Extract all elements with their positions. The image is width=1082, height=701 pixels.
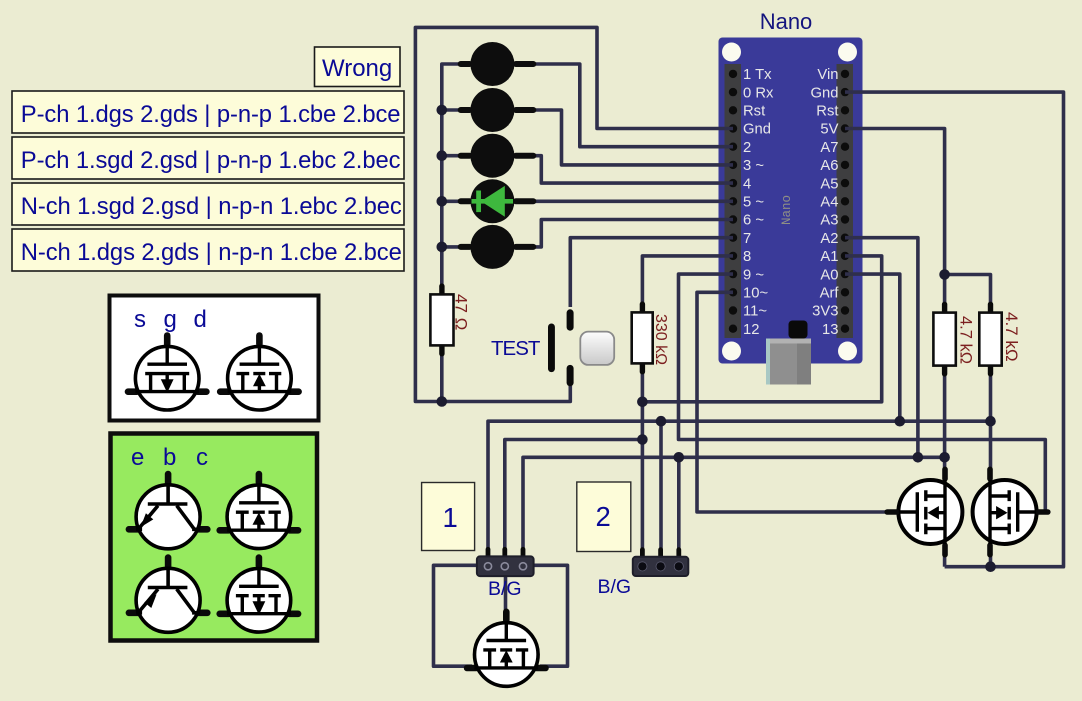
svg-text:2: 2 [596, 501, 611, 532]
svg-text:B/G: B/G [598, 576, 632, 598]
svg-text:A1: A1 [820, 249, 838, 265]
svg-text:c: c [196, 444, 208, 471]
svg-text:8: 8 [743, 249, 751, 265]
svg-text:6 ~: 6 ~ [743, 213, 764, 229]
svg-text:4.7 kΩ: 4.7 kΩ [957, 316, 975, 364]
svg-text:TEST: TEST [491, 337, 541, 360]
svg-text:A6: A6 [820, 158, 838, 174]
svg-text:11~: 11~ [743, 304, 767, 320]
svg-text:A7: A7 [820, 140, 838, 156]
svg-text:Gnd: Gnd [743, 122, 771, 138]
svg-text:10~: 10~ [743, 286, 768, 302]
svg-text:Rst: Rst [743, 104, 765, 120]
svg-text:1: 1 [443, 502, 458, 533]
svg-text:7: 7 [743, 231, 751, 247]
svg-text:47 Ω: 47 Ω [452, 294, 471, 330]
svg-text:4: 4 [743, 176, 751, 192]
svg-text:B/G: B/G [488, 578, 522, 600]
svg-text:g: g [164, 306, 177, 333]
svg-text:1 Tx: 1 Tx [743, 67, 772, 83]
svg-text:b: b [163, 444, 176, 471]
svg-text:Rst: Rst [816, 104, 838, 120]
svg-text:5 ~: 5 ~ [743, 195, 764, 211]
svg-text:2: 2 [743, 140, 751, 156]
svg-text:s: s [134, 306, 146, 333]
svg-text:3V3: 3V3 [812, 304, 838, 320]
svg-text:Gnd: Gnd [811, 85, 839, 101]
svg-text:N-ch 1.dgs 2.gds | n-p-n 1.cbe: N-ch 1.dgs 2.gds | n-p-n 1.cbe 2.bce [21, 239, 402, 266]
svg-text:4.7 kΩ: 4.7 kΩ [1002, 312, 1021, 362]
svg-text:Arf: Arf [820, 286, 840, 302]
svg-text:d: d [194, 306, 207, 333]
svg-text:Nano: Nano [780, 195, 794, 225]
svg-text:P-ch 1.sgd 2.gsd | p-n-p 1.ebc: P-ch 1.sgd 2.gsd | p-n-p 1.ebc 2.bec [21, 147, 401, 174]
svg-text:5V: 5V [820, 122, 838, 138]
svg-text:A2: A2 [820, 231, 838, 247]
svg-text:3 ~: 3 ~ [743, 158, 764, 174]
svg-text:Vin: Vin [817, 67, 838, 83]
svg-text:Wrong: Wrong [322, 55, 392, 82]
svg-text:e: e [131, 444, 144, 471]
svg-text:12: 12 [743, 322, 759, 338]
svg-text:13: 13 [822, 322, 838, 338]
svg-text:A5: A5 [820, 176, 838, 192]
svg-text:Nano: Nano [760, 9, 813, 34]
svg-text:330 kΩ: 330 kΩ [652, 314, 669, 365]
svg-text:P-ch 1.dgs 2.gds | p-n-p 1.cbe: P-ch 1.dgs 2.gds | p-n-p 1.cbe 2.bce [21, 101, 401, 128]
svg-text:N-ch 1.sgd 2.gsd | n-p-n 1.ebc: N-ch 1.sgd 2.gsd | n-p-n 1.ebc 2.bec [21, 193, 402, 220]
svg-text:A3: A3 [820, 213, 838, 229]
svg-text:A0: A0 [820, 267, 838, 283]
svg-text:0 Rx: 0 Rx [743, 85, 774, 101]
svg-text:9 ~: 9 ~ [743, 267, 764, 283]
svg-text:A4: A4 [820, 195, 838, 211]
